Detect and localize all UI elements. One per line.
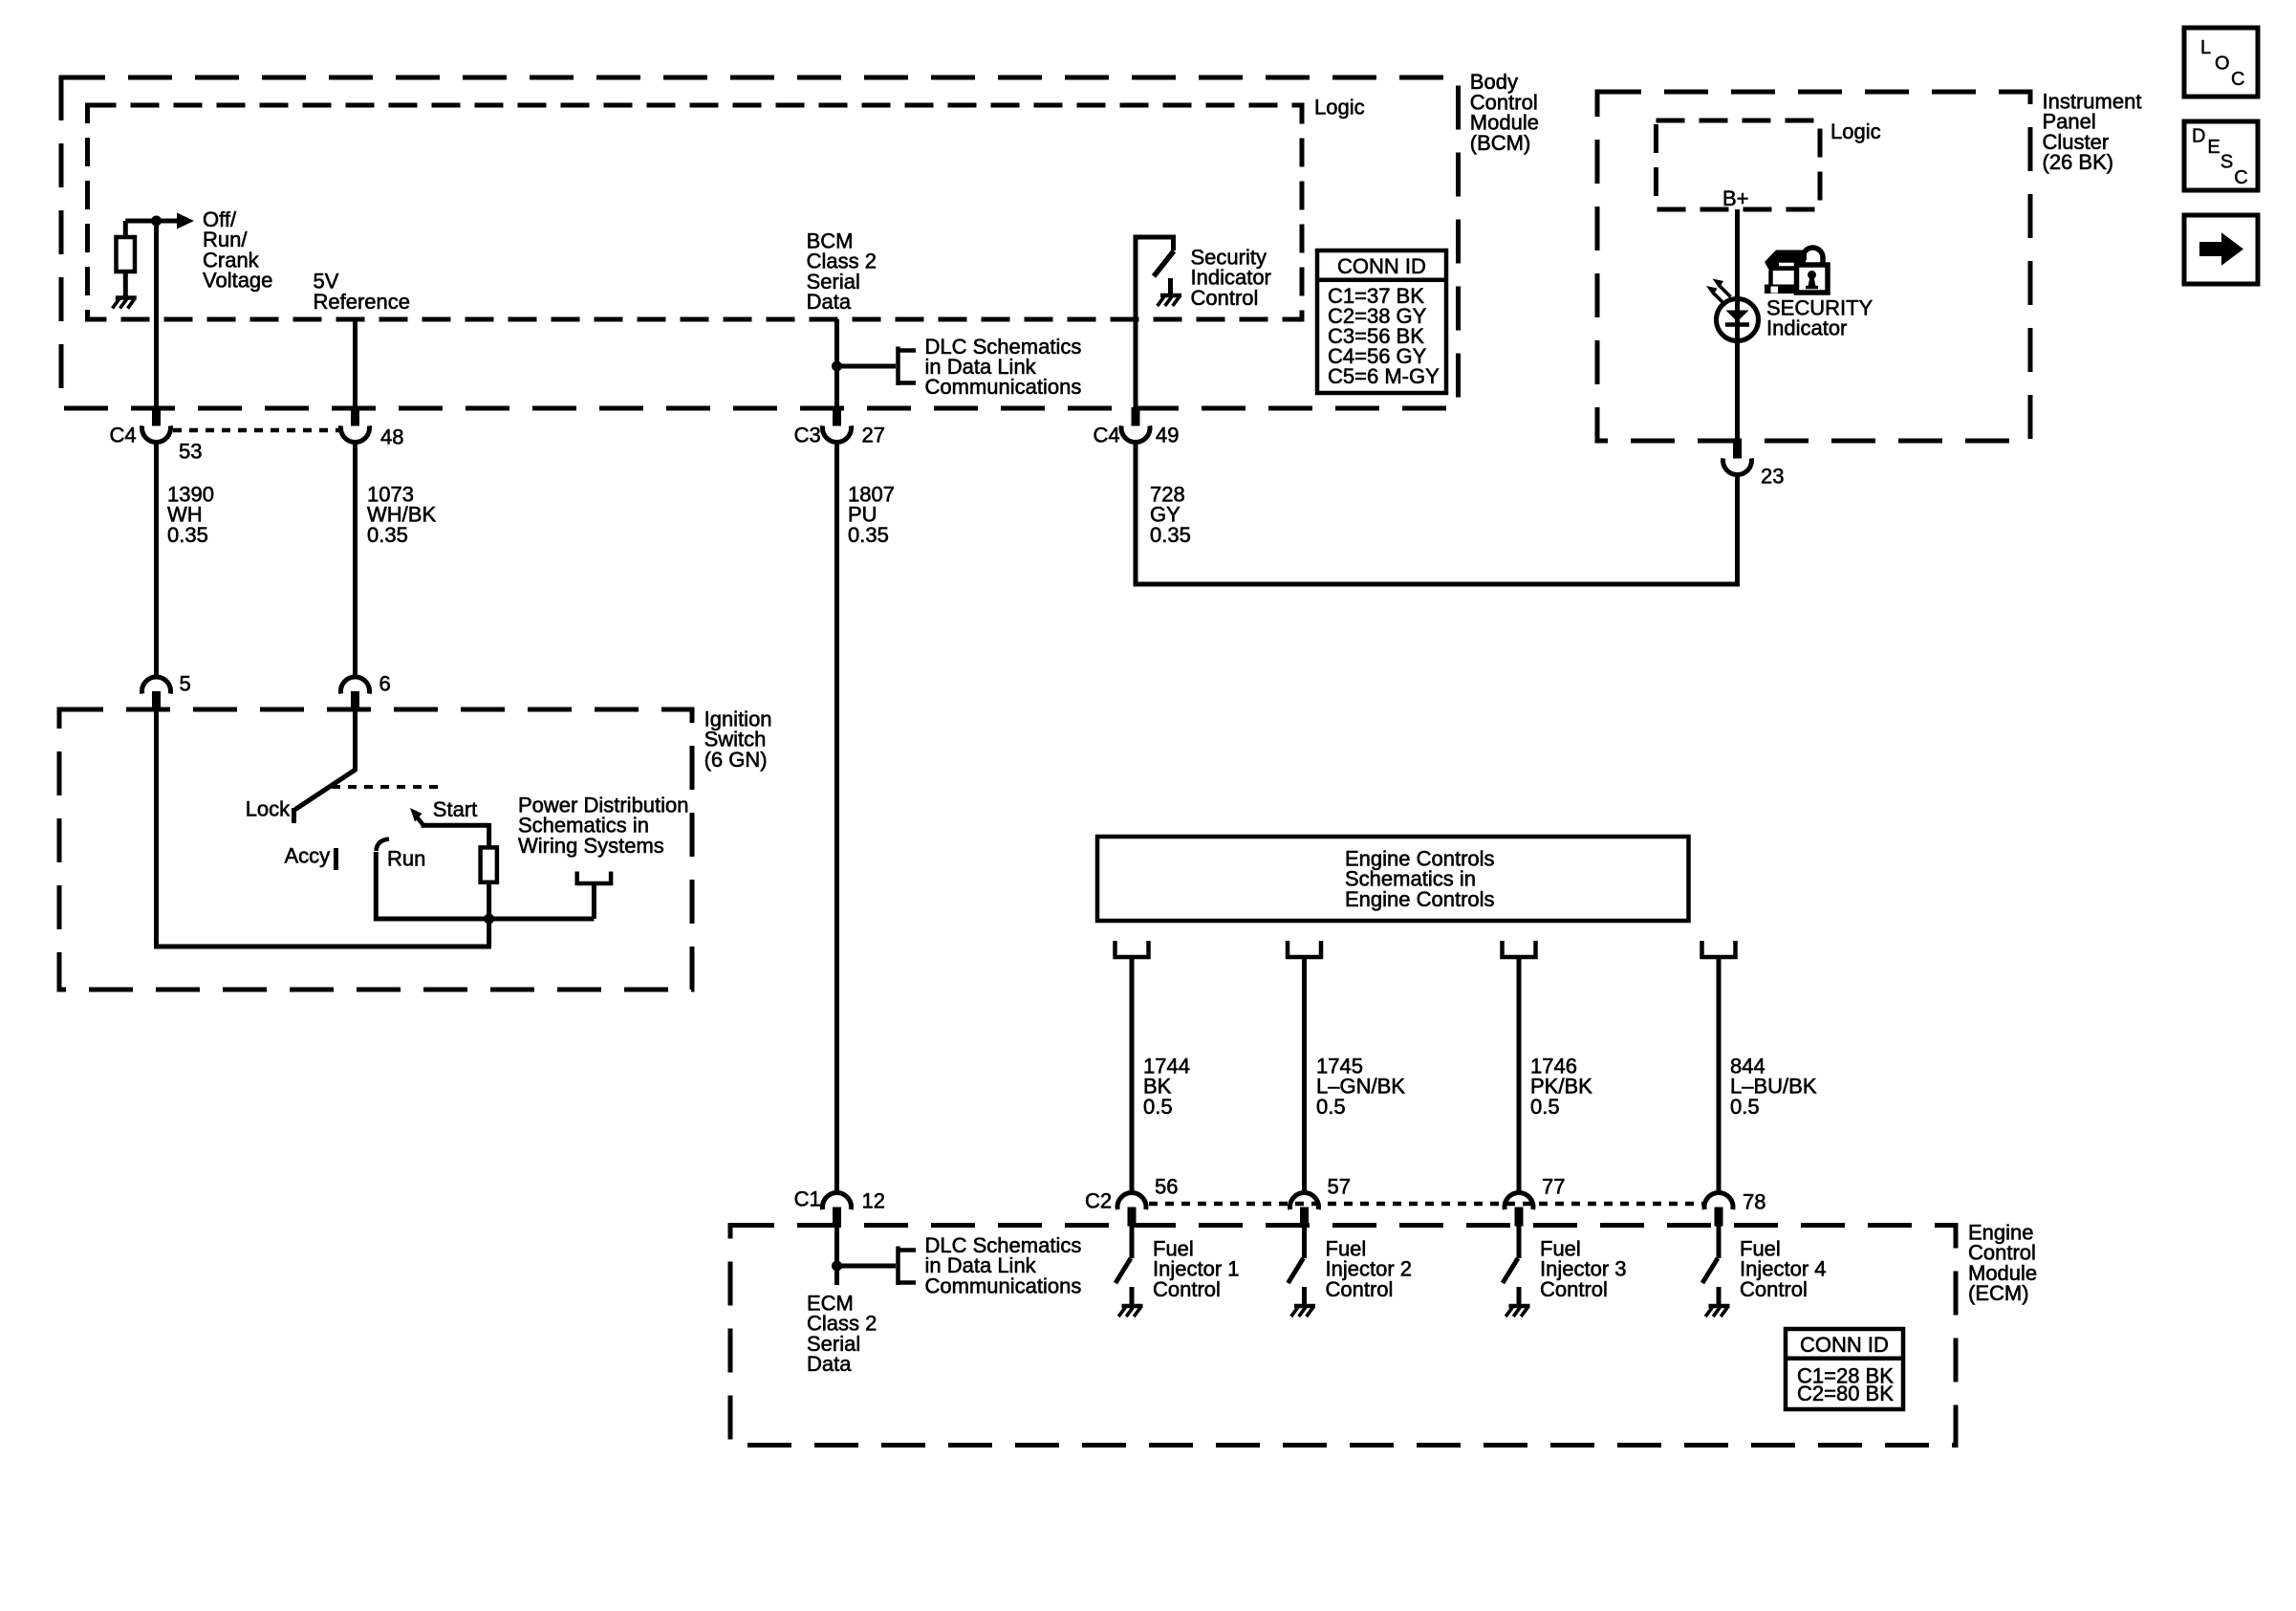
off-page bracket: engine controls output 4 (1700, 941, 1738, 959)
svg-text:53: 53 (179, 439, 202, 463)
svg-text:Control: Control (1740, 1277, 1808, 1301)
svg-text:12: 12 (862, 1188, 885, 1212)
off-page bracket: Power Distribution Schematics (575, 872, 613, 886)
contact: Run position (hook) and wire to junction (376, 839, 488, 922)
off-page bracket: engine controls output 2 (1286, 941, 1323, 959)
svg-text:C4: C4 (110, 424, 137, 447)
wire: resistor to Off/Run/Crank Voltage arrow (125, 219, 178, 224)
svg-text:E: E (2207, 137, 2220, 158)
svg-text:Engine Controls: Engine Controls (1345, 887, 1495, 911)
off-page bracket: DLC Schematics (BCM side) (897, 347, 917, 386)
svg-text:C5=6 M-GY: C5=6 M-GY (1328, 364, 1440, 388)
wire: circuit 1390 WH (ignition voltage) vertical (154, 221, 159, 408)
junction (ECM serial data to DLC stub) (832, 1261, 842, 1272)
svg-text:0.5: 0.5 (1143, 1095, 1173, 1119)
svg-text:27: 27 (862, 424, 885, 447)
svg-text:C2=80 BK: C2=80 BK (1797, 1382, 1894, 1405)
connector pin 23 (IPC) (1723, 440, 1752, 475)
svg-text:Logic: Logic (1830, 120, 1881, 143)
svg-text:Accy: Accy (285, 843, 331, 867)
svg-text:56: 56 (1155, 1174, 1178, 1198)
svg-text:Control: Control (1153, 1277, 1221, 1301)
svg-text:CONN ID: CONN ID (1800, 1333, 1889, 1357)
off-page bracket: engine controls output 3 (1501, 941, 1538, 959)
wire: junction to power distribution bracket (487, 883, 594, 919)
svg-text:O: O (2215, 54, 2230, 75)
svg-text:C1: C1 (794, 1186, 821, 1210)
table: CONN ID (ECM) (1786, 1329, 1903, 1409)
dashed connector tie line 53-48 (173, 428, 340, 433)
IPC internal Logic box, dashed (1657, 120, 1821, 209)
svg-text:6: 6 (379, 671, 391, 695)
connector C2 pin 78 (ECM) (1704, 1192, 1733, 1226)
svg-text:C: C (2234, 167, 2247, 188)
wire: serial data to DLC reference (837, 364, 897, 369)
svg-text:Logic: Logic (1314, 95, 1365, 119)
arrow: Off/Run/Crank Voltage internal signal (177, 213, 194, 229)
svg-text:Indicator: Indicator (1766, 316, 1847, 340)
module box: Ignition Switch (6 GN), dashed (59, 709, 692, 990)
connector C4 pin 49 (BCM) (1121, 407, 1150, 443)
svg-text:Control: Control (1191, 286, 1259, 310)
svg-text:(ECM): (ECM) (1968, 1281, 2029, 1305)
icon: vehicle with padlock (security telltale) (1765, 248, 1828, 294)
BCM internal Logic box, dashed (88, 105, 1303, 319)
connector pin 5 (ignition switch) (142, 677, 171, 710)
wire: pin 5 feed inside ignition switch (154, 709, 159, 949)
svg-text:B+: B+ (1722, 186, 1749, 210)
LED emission arrows (1706, 279, 1731, 305)
svg-text:Lock: Lock (246, 796, 291, 820)
svg-text:C2: C2 (1085, 1188, 1112, 1212)
reference box: LOC (2184, 28, 2258, 97)
ground (security indicator driver) (1158, 278, 1181, 306)
svg-text:S: S (2220, 151, 2233, 172)
wire: Start contact to resistor (422, 823, 489, 847)
connector C4 pin 53 (BCM) (142, 407, 171, 443)
svg-text:0.35: 0.35 (848, 523, 889, 547)
resistor R1 (BCM internal pull-up) (117, 221, 136, 297)
junction (run/start/feed node) (484, 914, 494, 925)
contact: Start position (spring-return arrow) (410, 808, 424, 827)
svg-text:0.35: 0.35 (1150, 523, 1191, 547)
wire: resistor to junction (487, 882, 491, 919)
junction (node: Off/Run/Crank Voltage sense) (151, 216, 162, 227)
svg-text:Communications: Communications (925, 1274, 1082, 1297)
svg-text:23: 23 (1761, 464, 1784, 488)
connector pin 48 (BCM C4) (341, 407, 370, 443)
svg-text:0.5: 0.5 (1316, 1095, 1346, 1119)
wire: injector 1 drive from engine controls (1130, 959, 1135, 1193)
wire: ECM serial data to DLC reference (837, 1264, 897, 1269)
connector C2 pin 56 (ECM) (1117, 1192, 1146, 1226)
resistor R2 (ignition switch bypass) (481, 847, 497, 882)
connector C3 pin 27 (BCM) (822, 407, 851, 443)
svg-text:Reference: Reference (314, 290, 411, 314)
wire: circuit 1073 WH/BK (5V reference) vertical (353, 319, 357, 408)
svg-text:57: 57 (1328, 1174, 1351, 1198)
svg-text:D: D (2192, 126, 2205, 147)
svg-text:C4: C4 (1094, 424, 1120, 447)
connector C2 pin 77 (ECM) (1505, 1192, 1533, 1226)
svg-text:(BCM): (BCM) (1470, 131, 1531, 155)
wire: circuit 1807 PU (BCM class 2 serial data) vertical (834, 319, 839, 408)
svg-text:48: 48 (380, 425, 403, 448)
off-page bracket: engine controls output 1 (1114, 941, 1151, 959)
svg-text:L: L (2200, 37, 2211, 58)
svg-text:0.5: 0.5 (1730, 1095, 1760, 1119)
svg-text:Control: Control (1540, 1277, 1608, 1301)
wire: circuit 728 GY (security indicator) (1134, 441, 1138, 587)
svg-text:5: 5 (180, 671, 191, 695)
svg-text:0.35: 0.35 (167, 523, 208, 547)
svg-text:77: 77 (1542, 1174, 1565, 1198)
switch: Security Indicator Control driver (inside BCM) (1136, 237, 1174, 408)
reference box: arrow (2184, 215, 2258, 284)
switch blade: ignition key (from pin 6) (295, 709, 357, 810)
contact tick: Lock position (292, 808, 296, 823)
svg-text:78: 78 (1743, 1189, 1765, 1213)
svg-text:Data: Data (807, 1352, 852, 1376)
svg-text:0.5: 0.5 (1530, 1095, 1560, 1119)
switch: fuel injector 4 driver and ground (1702, 1226, 1730, 1317)
svg-text:Communications: Communications (925, 375, 1082, 399)
LED: SECURITY indicator lamp (1717, 299, 1759, 341)
svg-text:Control: Control (1326, 1277, 1394, 1301)
module box: Engine Control Module (ECM), dashed (730, 1226, 1956, 1446)
svg-text:Wiring Systems: Wiring Systems (518, 834, 664, 858)
table: CONN ID (BCM) (1317, 250, 1446, 393)
box: Engine Controls Schematics reference (1097, 837, 1689, 921)
wire: injector 2 drive from engine controls (1302, 959, 1307, 1193)
connector C1 pin 12 (ECM) (823, 1192, 852, 1226)
connector pin 6 (ignition switch) (341, 677, 370, 710)
svg-text:Voltage: Voltage (203, 269, 272, 293)
off-page bracket: DLC Schematics (ECM side) (897, 1247, 917, 1286)
connector C2 pin 57 (ECM) (1290, 1192, 1319, 1226)
wire: injector 4 drive from engine controls (1717, 959, 1722, 1193)
svg-text:0.35: 0.35 (367, 523, 408, 547)
module box: Instrument Panel Cluster (26 BK), dashed (1597, 92, 2030, 441)
svg-text:Run: Run (387, 846, 425, 870)
dashed connector tie line 56-57-77-78 (1149, 1202, 1702, 1207)
wire: injector 3 drive from engine controls (1517, 959, 1522, 1193)
mechanical coupling dashed line (332, 785, 438, 789)
switch: fuel injector 3 driver and ground (1503, 1226, 1530, 1317)
wire: B+ through security LED to connector 23 (1735, 209, 1740, 441)
wire: serial data inside ECM (834, 1226, 839, 1286)
ground (below resistor R1) (113, 298, 137, 309)
switch: fuel injector 1 driver and ground (1116, 1226, 1143, 1317)
contact tick: Accy position (334, 848, 338, 870)
module box: Body Control Module (BCM), dashed outline (61, 77, 1459, 408)
svg-text:CONN ID: CONN ID (1337, 254, 1426, 278)
junction (serial data to DLC stub, BCM side) (832, 361, 842, 372)
svg-text:Data: Data (807, 290, 852, 314)
svg-text:(26 BK): (26 BK) (2043, 150, 2114, 174)
switch: fuel injector 2 driver and ground (1289, 1226, 1316, 1317)
svg-text:49: 49 (1156, 424, 1179, 447)
svg-text:(6 GN): (6 GN) (704, 748, 768, 772)
svg-text:Start: Start (433, 797, 477, 821)
svg-text:C3: C3 (794, 424, 821, 447)
svg-text:C: C (2231, 69, 2244, 90)
reference box: DESC (2184, 121, 2258, 190)
